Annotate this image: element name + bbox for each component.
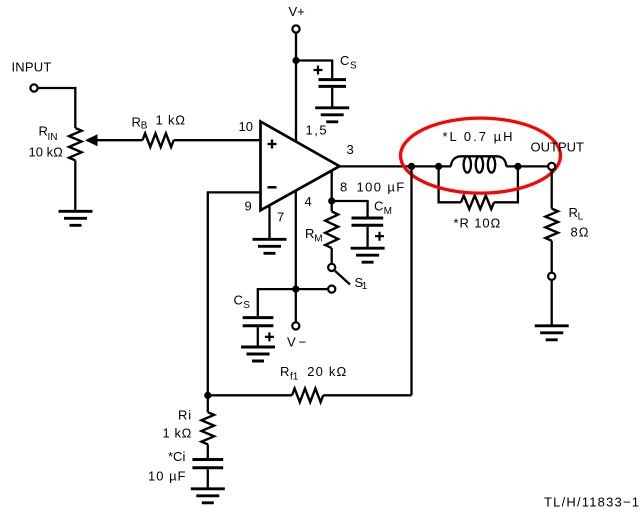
svg-text:C: C [234, 293, 243, 308]
resistor R snubber body [461, 196, 494, 210]
resistor RL body [545, 209, 558, 241]
svg-text:M: M [314, 234, 322, 245]
plus mark of CS top [314, 66, 323, 75]
wire feedback from output node down [410, 166, 412, 395]
wire terminal to ground [551, 280, 553, 325]
svg-text:IN: IN [48, 132, 58, 143]
wire RIN bottom to ground [74, 160, 76, 211]
op-amp U1 triangle [261, 122, 340, 211]
svg-text:1 kΩ: 1 kΩ [163, 426, 192, 441]
svg-text:Ri: Ri [178, 408, 192, 423]
switch S1 arm [335, 271, 350, 285]
op-amp minus input mark [268, 186, 277, 189]
svg-text:R: R [39, 124, 48, 139]
svg-text:V−: V− [287, 335, 309, 350]
ground below RL [535, 326, 569, 340]
svg-text:7: 7 [277, 210, 284, 225]
capacitor CS bottom plates [243, 318, 274, 326]
svg-text:INPUT: INPUT [12, 60, 52, 75]
wire V- node to capacitor CS bottom [258, 289, 296, 316]
svg-text:1 kΩ: 1 kΩ [156, 113, 186, 128]
node L/R left junction dot [435, 163, 442, 170]
svg-text:20 kΩ: 20 kΩ [307, 364, 347, 379]
inductor L loop 2 [476, 156, 483, 172]
svg-text:10 µF: 10 µF [148, 469, 187, 484]
wire CS top to ground [331, 88, 333, 107]
capacitor Ci plates [192, 460, 223, 468]
plus mark of CS bottom [265, 332, 274, 341]
wire feedback node to Ri [207, 395, 209, 412]
wire Ci to ground [207, 469, 209, 488]
ground below CM [351, 248, 385, 262]
wire RL to lower terminal [551, 241, 553, 273]
op-amp plus input mark [268, 140, 277, 149]
load lower terminal [548, 273, 555, 280]
node feedback junction dot [204, 392, 211, 399]
OUTPUT terminal [548, 163, 555, 170]
red highlight ellipse [401, 118, 561, 193]
svg-text:B: B [141, 121, 148, 132]
wire op-amp pin 8 to RM node [331, 170, 333, 211]
wire snubber branch right [494, 166, 518, 202]
resistor RB body [143, 133, 174, 147]
svg-text:OUTPUT: OUTPUT [531, 140, 585, 155]
wire inverting input pin 9 to feedback node [208, 192, 259, 395]
wire V+ node to capacitor CS top [296, 61, 332, 79]
svg-text:9: 9 [245, 199, 252, 214]
inductor L loop 3 [488, 156, 495, 172]
svg-text:R: R [280, 364, 289, 379]
V+ terminal [292, 25, 299, 32]
svg-text:1: 1 [362, 281, 368, 292]
switch S1 top contact [328, 264, 335, 271]
wire input terminal to RIN top [38, 88, 76, 128]
wire inductor right to OUTPUT [506, 165, 548, 167]
wire Ri to Ci [207, 444, 209, 458]
wire Rf1 to feedback node [208, 394, 292, 396]
svg-text:1,5: 1,5 [306, 123, 329, 138]
wire op-amp pin 7 to ground [268, 205, 270, 238]
svg-text:R: R [305, 226, 314, 241]
inductor L spine [451, 156, 506, 166]
svg-text:C: C [374, 199, 383, 214]
resistor RM body [325, 212, 338, 249]
svg-text:R: R [132, 115, 141, 130]
input terminal [30, 84, 37, 91]
wire feedback bottom right segment [323, 394, 411, 396]
inductor L loop 1 [464, 156, 471, 172]
ground below CS bottom [241, 347, 275, 361]
svg-text:8Ω: 8Ω [571, 225, 590, 240]
svg-text:V+: V+ [289, 4, 305, 19]
svg-text:8: 8 [340, 180, 347, 195]
svg-text:*R 10Ω: *R 10Ω [454, 216, 502, 231]
wire RM bottom to switch contact [331, 248, 333, 264]
potentiometer wiper arrow [85, 134, 98, 146]
ground below RIN [59, 211, 93, 225]
wire RB to op-amp noninverting input pin 10 [174, 139, 260, 141]
svg-text:C: C [340, 53, 349, 68]
node V+ junction dot [292, 57, 299, 64]
ground below pin 7 [253, 239, 287, 253]
switch S1 bottom contact [328, 286, 335, 293]
potentiometer RIN body [69, 128, 82, 160]
wire OUTPUT terminal to RL [551, 170, 553, 208]
wire pin 8 node to capacitor CM [332, 201, 368, 217]
node pin 8 junction dot [328, 197, 335, 204]
wire wiper arrow to RB [97, 139, 143, 141]
plus mark of CM [375, 232, 384, 241]
svg-text:*L 0.7 µH: *L 0.7 µH [443, 129, 515, 144]
svg-text:R: R [569, 205, 578, 220]
wire switch to V- node [296, 288, 328, 290]
wire CS bottom to ground [257, 327, 259, 346]
node V- junction dot [292, 286, 299, 293]
svg-text:3: 3 [347, 142, 354, 157]
ground below Ci [191, 489, 225, 503]
wire CM to ground [366, 227, 368, 248]
capacitor CS top plates [319, 80, 347, 87]
svg-text:f1: f1 [290, 372, 299, 383]
svg-text:S: S [243, 300, 250, 311]
svg-text:10: 10 [239, 119, 253, 134]
svg-text:*Ci: *Ci [168, 449, 185, 464]
svg-text:10 kΩ: 10 kΩ [29, 145, 64, 160]
svg-text:TL/H/11833−1: TL/H/11833−1 [544, 495, 640, 510]
wire op-amp output pin 3 [340, 165, 452, 167]
svg-text:S: S [350, 61, 357, 72]
svg-text:L: L [578, 212, 584, 223]
capacitor CM plates [352, 218, 384, 225]
svg-text:100 µF: 100 µF [357, 180, 406, 195]
svg-text:4: 4 [305, 194, 312, 209]
svg-text:M: M [384, 206, 392, 217]
V- terminal [292, 322, 299, 329]
resistor Ri body [202, 412, 215, 444]
wire V+ down to op-amp supply pins 1,5 [295, 33, 297, 141]
node output feedback junction dot [408, 163, 415, 170]
resistor Rf1 body [292, 389, 323, 403]
node L/R right junction dot [514, 163, 521, 170]
wire op-amp pin 4 down to V- [295, 190, 297, 322]
wire snubber branch left [439, 166, 461, 202]
ground below CS top [315, 108, 349, 122]
